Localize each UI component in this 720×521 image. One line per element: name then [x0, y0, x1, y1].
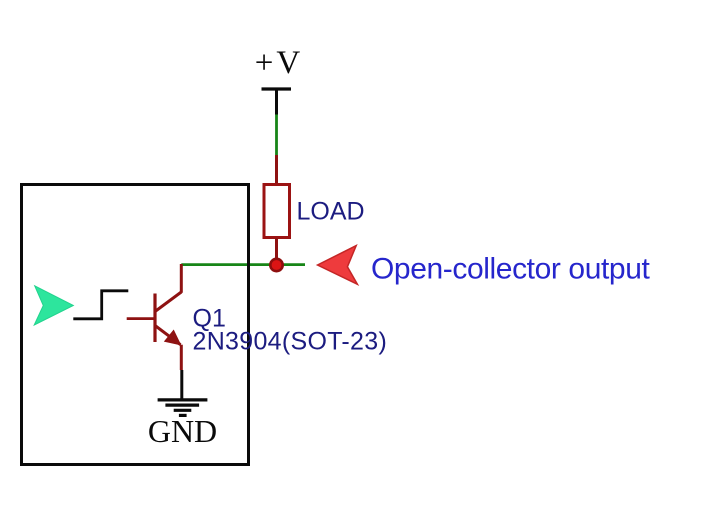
svg-text:Open-collector output: Open-collector output [371, 253, 650, 286]
IC boundary box [22, 185, 249, 465]
transistor Q1 base bar [153, 294, 156, 343]
wire: emitter down (dark red) [180, 345, 183, 370]
power rail symbol +V [262, 87, 292, 90]
input pointer arrow (green) [34, 286, 73, 325]
junction node (red dot) [270, 259, 282, 271]
wire: green segment to resistor [275, 115, 278, 156]
svg-text:2N3904(SOT-23): 2N3904(SOT-23) [193, 328, 388, 356]
wire: resistor bottom to node (dark red) [275, 238, 278, 265]
output pointer arrow (red) [318, 246, 358, 285]
wire: collector vertical to green net [180, 264, 183, 293]
svg-text:LOAD: LOAD [297, 198, 365, 226]
transistor Q1 collector diagonal [155, 292, 181, 312]
wire: green horizontal open-collector net [181, 263, 305, 266]
wire: +V bar down (black segment) [275, 89, 278, 115]
svg-text:GND: GND [148, 413, 217, 449]
svg-text:+V: +V [255, 45, 303, 81]
wire: dark red segment into resistor top [275, 155, 278, 185]
wire: base lead (dark red) [127, 317, 155, 320]
resistor LOAD (box symbol) [264, 185, 290, 238]
input step waveform symbol [73, 291, 128, 319]
ground symbol [158, 400, 208, 416]
transistor Q1 emitter arrowhead [165, 330, 181, 344]
wire: emitter to ground (black) [180, 370, 183, 400]
transistor Q1 emitter diagonal [155, 326, 181, 345]
